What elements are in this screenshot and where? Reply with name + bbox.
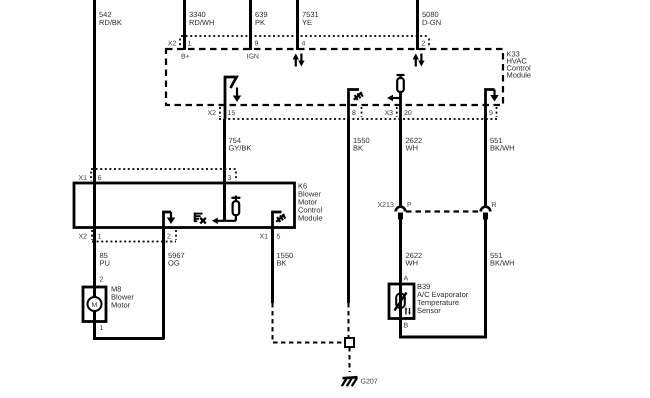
wire 1550 BK from K33 pin 8 <box>349 119 370 338</box>
wire 3340 RD/WH <box>185 0 215 50</box>
svg-text:PK: PK <box>255 18 265 27</box>
K6 output driver at pin 2 <box>164 212 176 227</box>
svg-text:9: 9 <box>489 110 493 117</box>
svg-text:2: 2 <box>422 41 426 48</box>
svg-text:Motor: Motor <box>111 301 131 310</box>
wire 2622 WH lower <box>401 219 423 284</box>
wire 7531 YE <box>298 0 319 50</box>
svg-text:WH: WH <box>406 259 419 268</box>
svg-text:X1: X1 <box>260 234 269 241</box>
K6 internal ground at pin X1 5 <box>273 212 286 227</box>
wire 651 BK/WH lower label <box>490 251 515 268</box>
svg-text:BK: BK <box>277 259 287 268</box>
svg-text:Module: Module <box>298 214 323 223</box>
connector X2 top of K33 <box>168 36 429 48</box>
connector row bottom of K33 (X2 / X3) <box>208 107 498 119</box>
svg-text:2: 2 <box>100 277 104 284</box>
svg-text:4: 4 <box>302 41 306 48</box>
svg-text:15: 15 <box>228 110 236 117</box>
svg-text:OG: OG <box>168 259 180 268</box>
wire 754 GY/BK <box>225 119 252 183</box>
svg-text:1: 1 <box>100 325 104 332</box>
svg-text:A: A <box>404 276 409 283</box>
svg-text:6: 6 <box>98 175 102 182</box>
wire motor pin 1 to 5967 bottom <box>95 322 164 339</box>
bidirectional arrows under pin 4 <box>293 54 305 67</box>
motor M8 <box>83 285 134 333</box>
svg-text:RD/BK: RD/BK <box>99 18 122 27</box>
K33 output driver at pin 15 <box>225 77 241 119</box>
svg-text:P: P <box>407 202 412 209</box>
svg-text:RD/WH: RD/WH <box>189 18 214 27</box>
svg-text:Module: Module <box>507 71 532 80</box>
svg-text:IGN: IGN <box>247 54 259 61</box>
svg-text:R: R <box>492 202 497 209</box>
svg-text:G207: G207 <box>361 379 378 386</box>
wire B39 B to 651 BK/WH lower <box>401 219 486 337</box>
svg-text:B+: B+ <box>181 54 190 61</box>
svg-text:X2: X2 <box>208 110 217 117</box>
svg-text:X3: X3 <box>385 110 394 117</box>
svg-text:X2: X2 <box>168 41 177 48</box>
svg-text:1: 1 <box>98 234 102 241</box>
module K6 solid box <box>74 182 323 228</box>
svg-text:B: B <box>404 323 409 330</box>
wire 85 PU <box>95 227 110 287</box>
svg-text:BK/WH: BK/WH <box>490 259 515 268</box>
svg-text:20: 20 <box>404 110 412 117</box>
splice junction box <box>345 338 354 347</box>
ground G207 <box>342 377 378 386</box>
svg-text:X213: X213 <box>378 202 394 209</box>
svg-text:PU: PU <box>100 259 110 268</box>
wire 2622 WH upper <box>401 119 423 207</box>
wire 651 BK/WH upper <box>486 119 515 207</box>
wire 5967 OG <box>164 227 185 340</box>
K33 sensing element at pin X3 20 <box>387 75 405 119</box>
wire through K6 from pin 6 to pin X2 1 <box>93 183 96 227</box>
module K33 dashed box <box>166 49 531 105</box>
svg-text:M: M <box>92 302 98 309</box>
svg-text:BK: BK <box>353 144 363 153</box>
bidirectional arrows under pin 2 <box>413 54 425 67</box>
dashed wire junction to ground <box>349 347 351 372</box>
wire 639 PK <box>251 0 268 50</box>
K6 PWM signal symbol <box>194 213 206 224</box>
svg-text:8: 8 <box>352 110 356 117</box>
connector X213 inline P <box>378 202 413 220</box>
svg-text:GY/BK: GY/BK <box>229 144 252 153</box>
svg-text:X2: X2 <box>79 234 88 241</box>
svg-text:Sensor: Sensor <box>417 306 441 315</box>
svg-text:BK/WH: BK/WH <box>490 144 515 153</box>
svg-text:YE: YE <box>302 18 312 27</box>
wire 5080 D-GN <box>418 0 442 50</box>
svg-text:2: 2 <box>167 234 171 241</box>
svg-text:9: 9 <box>255 41 259 48</box>
connector X213 inline R <box>481 202 497 220</box>
wire 1550 BK from K6 pin X1 5 <box>273 227 345 343</box>
svg-text:5: 5 <box>277 234 281 241</box>
svg-text:1: 1 <box>188 41 192 48</box>
wire 542 RD/BK vertical left <box>95 0 122 183</box>
connector row bottom of K6 <box>79 230 281 242</box>
connector X1 top of K6 <box>79 169 237 182</box>
K33 internal ground at pin 8 <box>349 90 363 120</box>
svg-text:WH: WH <box>406 144 419 153</box>
svg-text:X1: X1 <box>79 175 88 182</box>
svg-text:3: 3 <box>228 175 232 182</box>
svg-text:D-GN: D-GN <box>422 18 441 27</box>
dashed connector link P to R <box>406 210 480 212</box>
sensor B39 box <box>389 282 469 319</box>
K33 output at pin 9 <box>486 90 499 120</box>
K6 internal wire from pin 3 with element and arrow <box>212 183 241 224</box>
